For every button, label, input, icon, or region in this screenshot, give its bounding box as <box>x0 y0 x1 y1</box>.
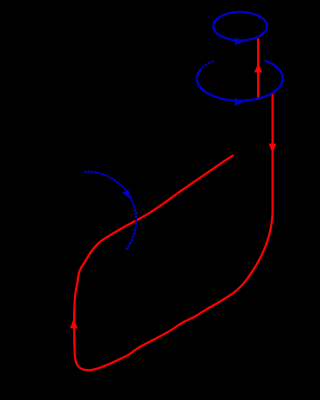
field line B1: top blue ellipse <box>213 12 267 40</box>
arrow on field line B2 <box>235 98 243 106</box>
field line B2: lower blue ellipse (solid part) <box>197 61 283 101</box>
wire: red circuit loop (right vertical lead, bottom loop, diagonal return) <box>74 94 272 370</box>
current arrow down on right wire lead <box>269 144 277 153</box>
field arc around left wire segment <box>85 172 136 249</box>
wire: red vertical segment between field loops <box>257 38 259 98</box>
field line B2: sparse dotted tail at upper left <box>200 61 214 70</box>
current arrow up on left side of loop <box>70 318 78 328</box>
current arrow up on top wire segment <box>254 63 262 72</box>
arrow on field line B1 <box>235 38 244 46</box>
arrow on left field arc <box>122 189 130 199</box>
